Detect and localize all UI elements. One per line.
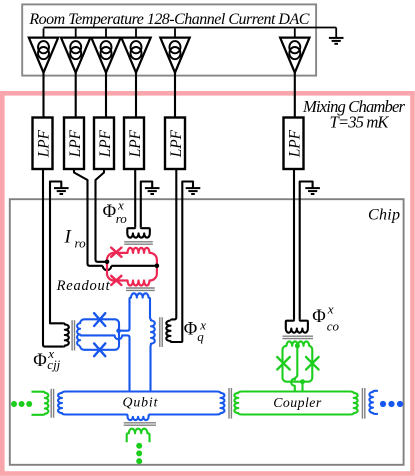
low pass filter LPF1 xyxy=(33,118,53,170)
transformer core (left neighbour coupler / qubit) xyxy=(51,389,53,418)
node: coupler CJJ top xyxy=(295,343,300,348)
readout SQUID loop (red) with top/bottom windings xyxy=(107,248,157,286)
CJJ middle wire down to qubit body xyxy=(80,335,129,391)
current source U3 (DAC channel) xyxy=(91,28,120,117)
ground for ch6 return xyxy=(305,188,320,194)
room temperature DAC box xyxy=(22,4,316,75)
CJJ bias winding (blue, on CJJ left edge) xyxy=(77,319,84,345)
inductor: Phi_q_x primary winding (black) xyxy=(166,321,182,342)
coupler CJJ loop (green) with top winding xyxy=(283,341,313,381)
low pass filter LPF3 xyxy=(94,118,114,170)
current source U1 (DAC channel) xyxy=(29,28,58,117)
current source U2 (DAC channel) xyxy=(61,28,90,117)
inductor: Phi_cjj_x primary winding (black) xyxy=(63,323,69,346)
transformer core (readout / qubit coupling) xyxy=(126,288,155,290)
current source U4 (DAC channel) xyxy=(121,28,150,117)
ground for ch5 return xyxy=(186,188,201,194)
label: I_ro xyxy=(64,227,87,251)
ground for ch4 return xyxy=(145,188,160,194)
svg-text:q: q xyxy=(197,329,204,344)
continuation winding (green) below qubit xyxy=(127,429,150,443)
wire: coupler CJJ to body xyxy=(301,382,303,392)
label: Phi_co_x xyxy=(312,301,339,333)
Josephson junction J4 (qubit CJJ bottom) xyxy=(94,343,105,356)
label: Phi_cjj_x xyxy=(33,346,60,372)
wire ch5 return: up to ground xyxy=(182,182,193,342)
svg-text:Φ: Φ xyxy=(184,320,198,340)
qubit readout-coupling winding (blue) xyxy=(130,293,150,303)
svg-text:ro: ro xyxy=(75,236,87,251)
transformer core (Phi_ro / readout) xyxy=(124,242,153,244)
Josephson junction J3 (qubit CJJ top) xyxy=(94,313,105,326)
svg-text:LPF: LPF xyxy=(97,129,114,158)
node: coupler CJJ bottom xyxy=(300,379,305,384)
Josephson junction J1 (readout top) xyxy=(111,248,121,257)
svg-text:Φ: Φ xyxy=(33,351,47,371)
wire ch2: LPF2 down, lower I_ro lead xyxy=(74,169,103,266)
transformer core (qubit / coupler) xyxy=(229,388,231,419)
svg-text:LPF: LPF xyxy=(127,129,144,158)
inductor: Phi_ro_x bias coil (black) xyxy=(127,227,150,237)
svg-text:Chip: Chip xyxy=(368,206,400,223)
wire ch4 return: up to ground xyxy=(141,182,152,228)
low pass filter LPF6 xyxy=(284,118,304,170)
wire: interior lead to readout right node xyxy=(111,265,155,267)
current source U5 (DAC channel) xyxy=(160,28,189,117)
ground at DAC bus xyxy=(329,28,344,44)
qubit main body loop xyxy=(58,392,224,421)
transformer core (qubit bottom / next cell) xyxy=(124,423,156,425)
svg-text:LPF: LPF xyxy=(67,129,84,158)
node: readout left terminal xyxy=(105,260,110,265)
mixing chamber enclosure box xyxy=(2,93,412,473)
current source U6 (DAC channel) xyxy=(280,28,309,117)
node: readout right terminal xyxy=(155,264,160,269)
svg-text:Readout: Readout xyxy=(56,278,111,294)
qubit CJJ loop (blue) xyxy=(80,319,119,350)
low pass filter LPF5 xyxy=(165,118,185,170)
wire: qubit bias branch through Phi_q secondary winding xyxy=(150,302,155,392)
svg-text:cjj: cjj xyxy=(47,357,60,372)
svg-text:Qubit: Qubit xyxy=(123,395,159,410)
svg-text:LPF: LPF xyxy=(35,129,52,158)
svg-text:co: co xyxy=(327,319,340,334)
transformer core (Phi_q) xyxy=(160,317,162,347)
svg-text:Φ: Φ xyxy=(312,307,326,327)
transformer core (coupler / right neighbour qubit) xyxy=(362,388,364,419)
transformer core (Phi_cjj) xyxy=(72,320,74,350)
node: qubit CJJ right edge junction xyxy=(116,328,121,333)
svg-text:Φ: Φ xyxy=(103,202,117,222)
svg-text:LPF: LPF xyxy=(286,129,303,158)
coupler body loop xyxy=(234,392,357,415)
low pass filter LPF4 xyxy=(124,118,144,170)
svg-text:I: I xyxy=(64,227,73,248)
ellipsis dots (left continuation) xyxy=(11,401,32,407)
DAC output bus wire xyxy=(44,27,337,29)
ellipsis dots (right continuation) xyxy=(380,401,403,407)
Josephson junction J5 (coupler left) xyxy=(277,357,290,370)
svg-text:Room Temperature 128-Channel C: Room Temperature 128-Channel Current DAC xyxy=(28,11,309,28)
wire hop over readout loop left edge xyxy=(103,266,112,270)
ground for ch1 return xyxy=(54,188,69,194)
svg-text:Coupler: Coupler xyxy=(273,395,322,410)
wire ch3: LPF3 down, upper I_ro lead to readout left node xyxy=(96,169,107,262)
Josephson junction J6 (coupler right) xyxy=(306,357,319,370)
svg-text:T=35 mK: T=35 mK xyxy=(330,113,390,132)
transformer core (Phi_co / coupler) xyxy=(283,336,314,338)
continuation winding (blue) right of coupler xyxy=(369,391,378,414)
low pass filter LPF2 xyxy=(64,118,84,170)
wire ch1 signal: LPF1 to Phi_cjj winding bottom lead xyxy=(43,169,63,347)
svg-text:ro: ro xyxy=(116,211,128,226)
wire ch1 return: Phi_cjj winding top lead up to ground xyxy=(50,182,63,324)
wire: qubit upper branch into CJJ xyxy=(119,302,130,331)
svg-text:x: x xyxy=(327,301,334,316)
coupler CJJ middle wire xyxy=(291,346,297,392)
wire ch5 signal: LPF5 down to Phi_q winding xyxy=(171,169,177,321)
inductor: Phi_co_x bias coil (black) xyxy=(286,320,308,333)
svg-text:LPF: LPF xyxy=(168,129,185,158)
Josephson junction J2 (readout bottom) xyxy=(111,276,121,285)
wire ch6 signal: LPF6 down to Phi_co coil xyxy=(293,169,295,320)
label: Phi_q_x xyxy=(184,317,206,344)
chip box xyxy=(10,199,404,465)
wire ch6 return: up to ground xyxy=(300,182,313,320)
ellipsis dots (bottom continuation) xyxy=(136,443,142,464)
continuation winding (green) left of qubit xyxy=(32,392,49,415)
label: Phi_ro_x xyxy=(103,198,128,226)
wire ch4 signal: LPF4 down to Phi_ro coil xyxy=(134,169,136,227)
